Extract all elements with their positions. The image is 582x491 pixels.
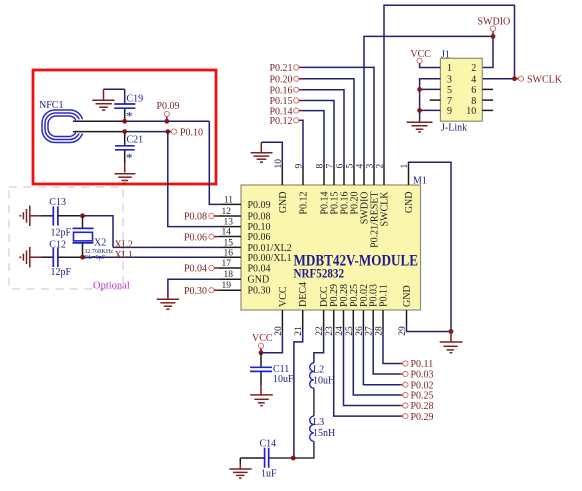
wire P0.10 to pin 13 [168,132,221,227]
wire SWCLK net (pin 2) [384,5,515,165]
optional dashed box [9,187,123,289]
svg-text:CL=9pF: CL=9pF [84,254,106,261]
ground (C11) [250,395,273,406]
svg-text:19: 19 [222,281,232,291]
port P0.20 [270,75,303,86]
inductor L2 [310,363,336,388]
port P0.16 [270,85,303,96]
wire SWDIO to J1 pin 2 [482,36,493,67]
port P0.04 [184,264,219,275]
ground (J1) [407,121,433,133]
svg-text:C14: C14 [260,439,277,450]
svg-text:16: 16 [224,248,234,258]
svg-text:GND: GND [402,285,413,307]
wire pin 21 DEC4 [294,330,303,458]
svg-text:12pF: 12pF [51,227,72,238]
svg-text:P0.06: P0.06 [248,232,271,243]
svg-text:10: 10 [466,106,476,117]
svg-text:10uH: 10uH [313,376,335,387]
wire pin 10 GND [261,142,282,165]
ground (pin 10) [251,142,273,162]
capacitor C14 [240,439,291,480]
crystal X2 [73,216,107,257]
svg-text:SWCLK: SWCLK [527,74,563,85]
port P0.15 [270,96,303,107]
junction SWDIO [491,34,496,39]
ground (M1) [440,332,463,353]
port SWDIO [478,16,511,34]
wire pin 26 P0.02 [363,330,400,385]
wire P0.20 to pin 5 [302,79,354,166]
svg-text:J-Link: J-Link [441,122,467,133]
wire pin 20 VCC [261,330,282,353]
wire pin 23 P0.29 [334,330,401,416]
port P0.12 [270,116,303,127]
antenna NFC1 coil [42,110,83,143]
IC U1 MDBT42V module body [241,185,421,310]
svg-text:P0.08: P0.08 [248,212,271,223]
svg-text:15nH: 15nH [313,428,335,439]
svg-text:X2: X2 [94,237,106,248]
chip pin names top [278,191,415,248]
svg-text:VCC: VCC [252,333,273,344]
svg-text:1: 1 [447,63,452,74]
chip pins bottom stubs [282,310,406,330]
junction VCC/C11 [259,350,264,355]
svg-text:P0.29: P0.29 [411,412,434,423]
pin J1-7 stub [430,99,441,101]
ground (C13, sideways) [19,206,41,226]
chip pin numbers bottom 20-29 [274,326,408,336]
svg-text:P0.21: P0.21 [270,63,293,74]
svg-text:P0.20: P0.20 [270,75,293,86]
port P0.10 [165,127,203,138]
svg-text:DEC4: DEC4 [298,282,309,307]
ground (C12, sideways) [19,247,41,267]
wire pin 25 P0.25 [353,330,400,395]
svg-text:11: 11 [224,195,233,205]
svg-text:GND: GND [404,192,415,214]
port P0.30 [184,286,219,297]
chip pins top stubs [282,166,408,186]
wire P0.16 to pin 6 [302,90,344,166]
wire P0.12 to pin 9 [302,120,303,165]
capacitor C12 [41,239,83,277]
pin J1-10 stub [482,109,493,111]
wire pin 22 DCC [314,330,324,363]
ground (C19) [92,89,114,110]
ground (C21) [115,174,136,184]
junction J1 pin 5 [417,87,422,92]
wire net XL1 [83,256,222,258]
svg-text:P0.16: P0.16 [270,85,293,96]
wire NFC upper lead [73,120,125,122]
svg-text:GND: GND [248,275,270,286]
chip pin names bottom [278,282,413,307]
port P0.25 [400,391,433,402]
junction C13/X2 [80,213,85,218]
wire pin 24 P0.28 [344,330,401,406]
svg-text:M1: M1 [413,176,427,187]
svg-text:P0.11: P0.11 [411,359,434,370]
svg-text:5: 5 [447,85,452,96]
inductor L3 [310,416,336,441]
connector J1 body [440,58,482,121]
svg-text:P0.25: P0.25 [411,391,434,402]
wire net XL2 [113,246,221,248]
svg-text:9: 9 [447,106,452,117]
wire SWDIO net (pin 4) [364,36,493,165]
junction M1/GND [449,329,454,334]
svg-text:NRF52832: NRF52832 [294,266,345,281]
port VCC (J1) [410,49,431,64]
svg-text:P0.00/XL1: P0.00/XL1 [248,253,292,264]
wire VCC to J1 pin 1 [420,63,441,67]
wire J1 pin 9 stub [420,109,441,111]
wire P0.14 to pin 8 [302,111,324,166]
junction C19/NFC [122,119,127,124]
chip pin numbers top 10-1 [274,159,410,169]
junction C12/X2/XL1 [80,255,85,260]
NFC red highlight box [33,70,216,184]
junction J1 pin 9 [417,108,422,113]
pin J1-8 stub [482,99,493,101]
svg-text:18: 18 [224,270,234,280]
svg-text:P0.11: P0.11 [379,284,390,307]
svg-text:P0.03: P0.03 [411,370,434,381]
svg-text:15: 15 [224,238,234,248]
svg-text:P0.09: P0.09 [157,101,180,112]
svg-text:10uF: 10uF [273,374,294,385]
wire SWCLK to J1 pin 4 [482,78,514,80]
wire L3 to C14 junction [294,441,314,458]
svg-text:P0.30: P0.30 [184,286,207,297]
chip pin numbers left 11-19 [222,195,234,291]
svg-text:GND: GND [278,192,289,214]
port VCC (C11) [252,333,273,350]
wire C19 to ground [104,88,125,90]
wire J1 pins 3,5,9 to ground [420,79,441,121]
svg-text:6: 6 [471,85,476,96]
svg-text:P0.10: P0.10 [180,127,203,138]
port P0.28 [400,401,433,412]
svg-text:P0.30: P0.30 [248,286,271,297]
svg-text:XL2: XL2 [115,239,133,250]
svg-text:P0.04: P0.04 [248,264,271,275]
wire J1 pin 5 stub [420,88,441,90]
svg-text:4: 4 [471,74,476,85]
svg-text:12: 12 [222,207,232,217]
svg-text:12pF: 12pF [51,267,72,278]
chip pins left stubs [219,204,241,290]
capacitor C19 [114,89,143,123]
wire P0.21 to pin 3 [302,67,374,165]
ground (C14) [229,469,251,478]
capacitor C13 [41,197,83,239]
port P0.08 [184,212,219,223]
svg-text:L3: L3 [313,417,324,428]
svg-text:P0.12: P0.12 [270,116,293,127]
svg-text:P0.28: P0.28 [411,401,434,412]
svg-text:L2: L2 [313,365,324,376]
wire P0.09 to pin 11 [209,121,221,204]
svg-text:P0.09: P0.09 [248,200,271,211]
svg-text:14: 14 [222,228,232,238]
J1 pin numbers [447,63,452,117]
port P0.11 [400,359,433,370]
wire L2 to L3 [313,388,315,416]
wire pin 29 GND to M1 ground [407,325,452,332]
port P0.02 [400,380,433,391]
svg-text:P0.02: P0.02 [411,380,434,391]
port P0.09 [157,101,180,124]
svg-text:Optional: Optional [93,281,130,292]
port P0.03 [400,370,433,381]
wire C14 to ground [239,458,241,464]
svg-text:P0.04: P0.04 [184,264,207,275]
wire C13 to XL2 bend [83,216,114,248]
pin J1-6 stub [482,88,493,90]
capacitor C21 [115,132,143,173]
svg-text:XL1: XL1 [115,250,133,261]
capacitor C11 [250,353,294,395]
wire pin 28 P0.11 [383,330,400,364]
port SWCLK [517,74,563,85]
svg-text:P0.12: P0.12 [299,192,310,215]
wire pin 27 P0.03 [373,330,400,374]
svg-text:1uF: 1uF [261,468,277,479]
svg-text:C13: C13 [49,197,66,208]
svg-text:*: * [126,150,133,165]
wire pin 1 GND to M1 [409,162,452,331]
wire NFC lower lead [73,131,125,133]
port P0.14 [270,106,303,117]
port P0.06 [184,232,219,243]
wire P0.15 to pin 7 [302,101,334,166]
svg-text:VCC: VCC [278,286,289,307]
ground (pin 18) [157,294,179,309]
junction DEC4/C14/L3 [291,456,296,461]
svg-text:17: 17 [222,259,232,269]
svg-text:13: 13 [224,218,234,228]
port P0.21 [270,63,303,74]
svg-text:SWCLK: SWCLK [380,191,391,227]
svg-text:2: 2 [471,63,476,74]
svg-text:3: 3 [447,74,452,85]
svg-text:C21: C21 [127,135,144,146]
svg-text:P0.06: P0.06 [184,232,207,243]
svg-text:C19: C19 [127,94,144,105]
wire pin 18 GND [168,279,221,297]
svg-text:P0.08: P0.08 [184,212,207,223]
chip pin names left [248,200,292,297]
port P0.29 [400,412,433,423]
junction SWCLK [512,76,517,81]
junction C21/NFC [122,129,127,134]
